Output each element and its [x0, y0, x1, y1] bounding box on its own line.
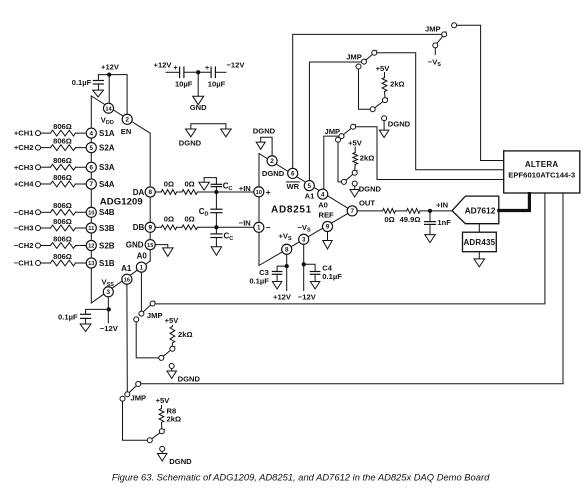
svg-text:DGND: DGND	[253, 127, 276, 136]
svg-text:8: 8	[285, 247, 289, 254]
svg-text:806Ω: 806Ω	[53, 136, 72, 145]
svg-text:806Ω: 806Ω	[53, 156, 72, 165]
svg-text:DB: DB	[133, 223, 145, 232]
svg-text:+CH2: +CH2	[14, 143, 34, 152]
svg-text:3: 3	[107, 289, 111, 296]
svg-text:S4B: S4B	[99, 208, 115, 217]
svg-text:0Ω: 0Ω	[164, 215, 174, 224]
svg-text:14: 14	[105, 106, 112, 112]
svg-text:Figure 63. Schematic of ADG120: Figure 63. Schematic of ADG1209, AD8251,…	[112, 471, 490, 482]
svg-text:2: 2	[125, 117, 129, 124]
svg-text:JMP: JMP	[147, 311, 163, 320]
svg-text:+5V: +5V	[348, 138, 363, 147]
svg-text:2kΩ: 2kΩ	[360, 153, 375, 162]
svg-text:−12V: −12V	[100, 324, 119, 333]
svg-text:+CH3: +CH3	[14, 163, 34, 172]
svg-text:S4A: S4A	[99, 180, 115, 189]
svg-text:0.1µF: 0.1µF	[249, 276, 269, 285]
svg-text:S1A: S1A	[99, 129, 115, 138]
svg-text:7: 7	[90, 181, 94, 188]
svg-text:+12V: +12V	[273, 293, 292, 302]
svg-text:5: 5	[90, 145, 94, 152]
svg-text:DGND: DGND	[388, 119, 411, 128]
svg-text:3: 3	[302, 237, 306, 244]
svg-text:1nF: 1nF	[437, 218, 451, 227]
svg-text:0Ω: 0Ω	[164, 179, 174, 188]
svg-text:EPF6010ATC144-3: EPF6010ATC144-3	[508, 171, 575, 180]
svg-text:S2A: S2A	[99, 143, 115, 152]
svg-text:+CH1: +CH1	[14, 129, 34, 138]
svg-text:S2B: S2B	[99, 241, 115, 250]
svg-text:JMP: JMP	[131, 393, 147, 402]
svg-text:4: 4	[321, 191, 325, 198]
svg-text:DA: DA	[133, 188, 145, 197]
svg-text:DGND: DGND	[178, 374, 201, 383]
svg-text:+: +	[205, 65, 209, 72]
svg-text:0Ω: 0Ω	[184, 215, 194, 224]
svg-text:15: 15	[147, 243, 153, 249]
svg-text:+IN: +IN	[436, 201, 448, 210]
svg-text:5: 5	[308, 183, 312, 190]
svg-text:−: −	[266, 222, 271, 232]
svg-text:+5V: +5V	[376, 64, 391, 73]
svg-text:+IN: +IN	[239, 184, 251, 193]
svg-text:0.1µF: 0.1µF	[58, 312, 78, 321]
svg-text:2kΩ: 2kΩ	[167, 415, 182, 424]
svg-text:10: 10	[256, 190, 262, 196]
svg-text:+: +	[266, 187, 271, 197]
svg-text:9: 9	[148, 225, 152, 232]
svg-text:−CH1: −CH1	[14, 259, 34, 268]
svg-text:0Ω: 0Ω	[184, 179, 194, 188]
svg-text:A1: A1	[121, 264, 132, 273]
svg-text:A1: A1	[305, 192, 315, 201]
svg-text:−12V: −12V	[227, 61, 246, 70]
svg-text:JMP: JMP	[346, 52, 362, 61]
svg-text:49.9Ω: 49.9Ω	[400, 215, 421, 224]
svg-text:0Ω: 0Ω	[384, 215, 394, 224]
svg-text:1: 1	[257, 225, 261, 232]
svg-text:4: 4	[90, 130, 94, 137]
svg-text:ADG1209: ADG1209	[100, 196, 143, 207]
svg-text:16: 16	[124, 277, 130, 283]
svg-text:−IN: −IN	[239, 219, 251, 228]
svg-text:2: 2	[270, 158, 274, 165]
svg-text:GND: GND	[190, 103, 207, 112]
svg-text:13: 13	[88, 261, 94, 267]
svg-text:+12V: +12V	[154, 61, 173, 70]
svg-text:10µF: 10µF	[175, 80, 193, 89]
svg-text:+CH4: +CH4	[14, 180, 34, 189]
svg-text:0.1µF: 0.1µF	[322, 272, 342, 281]
svg-text:S3B: S3B	[99, 224, 115, 233]
svg-text:+5V: +5V	[156, 396, 171, 405]
svg-text:−12V: −12V	[298, 293, 317, 302]
svg-text:+12V: +12V	[101, 63, 120, 72]
svg-text:7: 7	[350, 208, 354, 215]
svg-text:8: 8	[148, 189, 152, 196]
svg-text:2kΩ: 2kΩ	[178, 330, 193, 339]
svg-text:ADR435: ADR435	[463, 238, 495, 247]
svg-text:S3A: S3A	[99, 163, 115, 172]
svg-text:806Ω: 806Ω	[53, 122, 72, 131]
svg-text:REF: REF	[319, 210, 335, 219]
svg-text:−CH3: −CH3	[14, 224, 34, 233]
svg-text:DGND: DGND	[359, 185, 382, 194]
svg-text:10: 10	[88, 211, 94, 217]
svg-text:DGND: DGND	[262, 169, 285, 178]
svg-text:+5V: +5V	[165, 316, 180, 325]
svg-text:806Ω: 806Ω	[53, 252, 72, 261]
svg-text:0.1µF: 0.1µF	[72, 78, 92, 87]
svg-text:11: 11	[88, 226, 94, 232]
svg-text:806Ω: 806Ω	[53, 217, 72, 226]
svg-text:AD7612: AD7612	[465, 206, 496, 216]
svg-text:AD8251: AD8251	[271, 205, 312, 216]
svg-text:ALTERA: ALTERA	[525, 160, 559, 169]
svg-text:OUT: OUT	[359, 199, 375, 208]
svg-text:806Ω: 806Ω	[53, 173, 72, 182]
svg-text:806Ω: 806Ω	[53, 234, 72, 243]
svg-text:A0: A0	[137, 251, 148, 260]
svg-text:EN: EN	[121, 127, 132, 136]
svg-text:A0: A0	[318, 200, 328, 209]
svg-text:1: 1	[140, 264, 144, 271]
svg-text:806Ω: 806Ω	[53, 201, 72, 210]
svg-text:+: +	[174, 65, 178, 72]
svg-text:GND: GND	[126, 240, 144, 249]
svg-text:12: 12	[88, 244, 94, 250]
svg-text:WR: WR	[287, 182, 300, 191]
svg-text:6: 6	[90, 164, 94, 171]
svg-text:9: 9	[326, 224, 330, 231]
svg-text:10µF: 10µF	[208, 80, 226, 89]
svg-text:S1B: S1B	[99, 259, 115, 268]
svg-text:DGND: DGND	[169, 457, 192, 466]
svg-text:2kΩ: 2kΩ	[390, 80, 405, 89]
svg-text:DGND: DGND	[179, 138, 202, 147]
svg-text:JMP: JMP	[325, 127, 341, 136]
svg-text:6: 6	[291, 171, 295, 178]
svg-text:−CH4: −CH4	[14, 208, 34, 217]
svg-text:−CH2: −CH2	[14, 241, 34, 250]
svg-text:JMP: JMP	[425, 25, 441, 34]
